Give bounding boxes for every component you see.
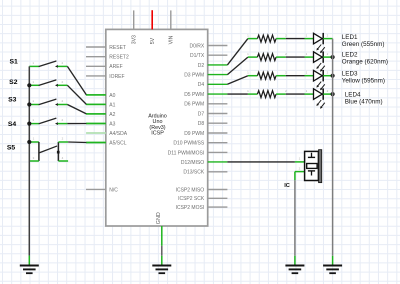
- svg-text:Green (555nm): Green (555nm): [342, 41, 385, 48]
- wire D3 to R2: [227, 57, 248, 75]
- svg-text:D11 PWM/MOSI: D11 PWM/MOSI: [168, 150, 205, 156]
- svg-text:4: 4: [62, 156, 64, 160]
- svg-text:LED4: LED4: [345, 92, 361, 99]
- svg-text:A2: A2: [109, 112, 115, 118]
- svg-text:IC: IC: [284, 183, 290, 189]
- svg-text:Yellow (595nm): Yellow (595nm): [342, 78, 385, 85]
- junction node on right bus y=94.1: [331, 92, 335, 96]
- svg-text:2: 2: [61, 118, 63, 122]
- pin 3V3: [133, 10, 135, 29]
- pin D4: [208, 83, 228, 85]
- svg-text:N/C: N/C: [109, 187, 118, 193]
- svg-text:D1/TX: D1/TX: [190, 53, 205, 59]
- pin AREF: [86, 65, 106, 67]
- wire 5V red: [151, 10, 153, 29]
- svg-text:IOREF: IOREF: [109, 74, 124, 80]
- ground: [152, 265, 171, 267]
- wire S1 to A0: [67, 66, 86, 95]
- svg-text:ICSP2 MOSI: ICSP2 MOSI: [176, 205, 205, 211]
- svg-text:A5/SCL: A5/SCL: [109, 140, 126, 146]
- wire A4/SDA stub (unrouted): [87, 132, 106, 134]
- svg-text:1: 1: [306, 89, 308, 93]
- svg-text:ICSP: ICSP: [151, 131, 164, 137]
- pin D10 PWM/SS: [208, 142, 228, 144]
- pin D0/RX: [208, 45, 228, 47]
- svg-text:D13/SCK: D13/SCK: [183, 170, 205, 176]
- wire D2 to R1: [227, 39, 248, 65]
- pin A4/SDA: [86, 132, 106, 134]
- junction node on right bus y=75.7: [331, 74, 335, 78]
- IC Arduino Uno (Rev3) body: [106, 29, 208, 226]
- svg-text:1: 1: [306, 71, 308, 75]
- svg-text:RESET2: RESET2: [109, 55, 129, 61]
- svg-text:2: 2: [61, 80, 63, 84]
- svg-text:D6 PWM: D6 PWM: [184, 102, 204, 108]
- svg-text:5V: 5V: [150, 37, 156, 44]
- wire R4 to LED4: [286, 93, 305, 95]
- pin D9 PWM: [208, 132, 228, 134]
- LED LED3: [305, 75, 314, 77]
- svg-text:LED2: LED2: [342, 52, 358, 59]
- wire S3 to A2: [67, 105, 86, 114]
- pin GND: [161, 226, 163, 246]
- resistor R1: [248, 38, 258, 40]
- wire S5 to A5/SCL: [68, 141, 86, 144]
- svg-text:D5 PWM: D5 PWM: [184, 92, 204, 98]
- svg-text:D10 PWM/SS: D10 PWM/SS: [173, 141, 205, 147]
- junction node on left bus y=123.6: [27, 122, 31, 126]
- pin N/C: [86, 188, 106, 190]
- piezo IC: [295, 161, 305, 163]
- svg-text:D0/RX: D0/RX: [189, 43, 204, 49]
- LED LED4: [305, 93, 314, 95]
- wire left bus to ground: [28, 66, 30, 255]
- junction node on right bus y=57.1: [331, 55, 335, 59]
- svg-text:D12/MISO: D12/MISO: [181, 160, 204, 166]
- wire D5 to R4: [227, 93, 248, 95]
- wire S4 to A3: [67, 123, 86, 125]
- pin D13/SCK: [208, 171, 228, 173]
- pin ICSP2 MISO: [208, 189, 228, 191]
- svg-text:A1: A1: [109, 102, 115, 108]
- pin D8: [208, 122, 228, 124]
- pin D11 PWM/MOSI: [208, 151, 228, 153]
- pin D6 PWM: [208, 103, 228, 105]
- svg-text:3: 3: [33, 156, 35, 160]
- pin A5/SCL: [86, 142, 106, 144]
- svg-text:2: 2: [62, 137, 64, 141]
- LED LED2: [305, 56, 314, 58]
- wire piezo pin2 to ground: [294, 172, 296, 181]
- svg-text:1: 1: [247, 71, 249, 75]
- wire D12/MISO to piezo: [227, 161, 295, 163]
- svg-text:2: 2: [61, 99, 63, 103]
- pin D1/TX: [208, 54, 228, 56]
- svg-text:D9 PWM: D9 PWM: [184, 131, 204, 137]
- svg-text:LED3: LED3: [342, 71, 358, 78]
- junction node on left bus y=142.0: [27, 140, 31, 144]
- svg-text:2: 2: [327, 71, 329, 75]
- wire R2 to LED2: [286, 56, 305, 58]
- ground: [285, 265, 304, 267]
- wire R1 to LED1: [286, 38, 305, 40]
- svg-text:RESET: RESET: [109, 45, 126, 51]
- pin D7: [208, 113, 228, 115]
- svg-text:GND: GND: [156, 212, 162, 224]
- resistor R4: [248, 93, 258, 95]
- svg-text:A3: A3: [109, 121, 115, 127]
- svg-text:3V3: 3V3: [132, 35, 138, 44]
- pin D12/MISO: [208, 161, 228, 163]
- svg-text:S3: S3: [8, 97, 17, 104]
- svg-text:1: 1: [299, 157, 301, 161]
- pin RESET2: [86, 56, 106, 58]
- svg-text:D2: D2: [198, 63, 205, 69]
- svg-text:Blue (470nm): Blue (470nm): [345, 99, 383, 106]
- svg-text:A0: A0: [109, 93, 115, 99]
- wire R3 to LED3: [286, 75, 305, 77]
- svg-text:D4: D4: [198, 82, 205, 88]
- ground: [323, 265, 342, 267]
- svg-text:ICSP2 SCK: ICSP2 SCK: [178, 196, 205, 202]
- svg-text:D3 PWM: D3 PWM: [184, 73, 204, 79]
- wire Arduino GND to ground: [161, 246, 163, 256]
- pin A3: [86, 123, 106, 125]
- resistor R3: [248, 75, 258, 77]
- junction node on left bus y=85.3: [27, 83, 31, 87]
- resistor R2: [248, 56, 258, 58]
- svg-text:S4: S4: [8, 121, 17, 128]
- svg-text:VIN: VIN: [169, 35, 175, 44]
- LED LED1: [305, 38, 314, 40]
- pin IOREF: [86, 75, 106, 77]
- svg-text:ICSP2 MISO: ICSP2 MISO: [176, 187, 205, 193]
- wire LED cathode bus to ground: [332, 39, 334, 256]
- pin D3 PWM: [208, 74, 228, 76]
- wire D4 to R3: [227, 76, 248, 85]
- pin ICSP2 MOSI: [208, 206, 228, 208]
- junction node on left bus y=104.5: [27, 102, 31, 106]
- wire S2 to A1: [67, 85, 86, 104]
- pin RESET: [86, 46, 106, 48]
- pin A0: [86, 94, 106, 96]
- svg-text:2: 2: [299, 166, 301, 170]
- svg-text:1: 1: [32, 99, 34, 103]
- svg-text:S2: S2: [9, 79, 18, 86]
- svg-text:1: 1: [32, 118, 34, 122]
- svg-text:Orange (620nm): Orange (620nm): [342, 59, 388, 66]
- svg-text:S5: S5: [7, 144, 16, 151]
- svg-text:A4/SDA: A4/SDA: [109, 131, 127, 137]
- svg-text:1: 1: [32, 80, 34, 84]
- svg-text:1: 1: [33, 137, 35, 141]
- pin ICSP2 SCK: [208, 197, 228, 199]
- svg-text:2: 2: [327, 89, 329, 93]
- svg-text:D8: D8: [198, 121, 205, 127]
- svg-text:S1: S1: [9, 59, 18, 66]
- svg-text:AREF: AREF: [109, 64, 122, 70]
- pin D5 PWM: [208, 93, 228, 95]
- pin A1: [86, 103, 106, 105]
- pin D2: [208, 64, 228, 66]
- svg-text:D7: D7: [198, 111, 205, 117]
- pin VIN: [170, 10, 172, 29]
- svg-text:LED1: LED1: [342, 34, 358, 41]
- svg-text:1: 1: [247, 89, 249, 93]
- ground: [20, 265, 39, 267]
- pin A2: [86, 113, 106, 115]
